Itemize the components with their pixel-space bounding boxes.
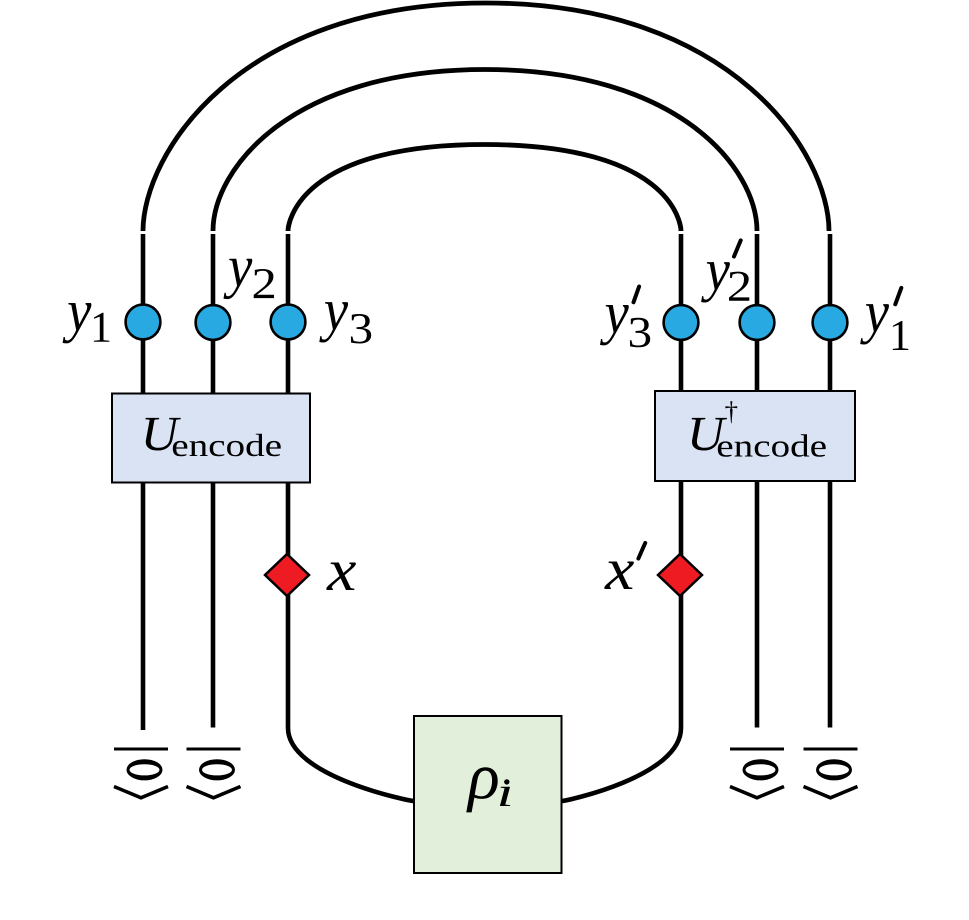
- node y1 (blue dot): [126, 305, 161, 340]
- box rho_i: [414, 716, 562, 873]
- box U_encode: [112, 394, 310, 483]
- wire: middle loop arc connecting y2 wire to y2' wire: [213, 70, 757, 232]
- wire: outer loop arc connecting y1 wire to y1' wire: [143, 3, 829, 231]
- node x (red diamond): [265, 554, 309, 596]
- node y2 (blue dot): [196, 305, 231, 340]
- label U_encode: [145, 418, 180, 451]
- box U dagger encode: [655, 391, 855, 481]
- bra <0| terminator on wire 1': [804, 749, 858, 798]
- label y3: [319, 302, 371, 343]
- label y1': [860, 288, 908, 350]
- wire: inner loop arc connecting y3 wire to y3' wire: [288, 145, 681, 232]
- bra <0| terminator on wire 2': [730, 749, 784, 798]
- node y3' (blue dot): [664, 305, 699, 340]
- label y2: [224, 259, 275, 299]
- label U dagger encode: [692, 418, 727, 451]
- node y3 (blue dot): [271, 305, 306, 340]
- label y3': [600, 287, 650, 348]
- wire: left qubit wire 1: [141, 234, 146, 730]
- wire: right qubit wire 1': [828, 234, 833, 728]
- label x': [604, 543, 645, 589]
- node x' (red diamond): [658, 554, 702, 596]
- label y1: [63, 303, 110, 343]
- wire: left qubit wire 2: [211, 234, 216, 728]
- wire: left qubit wire 3 with bend into rho box: [288, 234, 414, 801]
- label x: [326, 563, 356, 591]
- bra <0| terminator on wire 2: [187, 749, 241, 798]
- wire: right qubit wire 2': [755, 234, 760, 728]
- bra <0| terminator on wire 1: [114, 749, 168, 798]
- label y2': [701, 240, 749, 302]
- label rho_i: [466, 767, 497, 812]
- node y1' (blue dot): [813, 305, 848, 340]
- node y2' (blue dot): [740, 305, 775, 340]
- wire: right qubit wire 3' with bend into rho box: [562, 234, 682, 801]
